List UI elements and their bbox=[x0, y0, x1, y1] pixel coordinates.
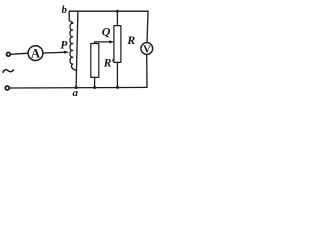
wire: right branch lower segment (voltmeter to bottom corner) bbox=[146, 54, 148, 87]
junction dot at coil bottom (a) bbox=[75, 86, 78, 89]
wire: right branch upper segment (top corner down to voltmeter) bbox=[147, 11, 148, 43]
voltmeter V circle bbox=[141, 43, 153, 55]
terminal (bottom) bbox=[5, 86, 9, 90]
junction dot at R' bottom bbox=[93, 86, 96, 89]
terminal (top) bbox=[6, 52, 10, 56]
slider arrowhead Q bbox=[109, 40, 114, 43]
slider arrowhead P bbox=[64, 51, 69, 54]
wire: bottom bus from terminal to bottom-right corner bbox=[10, 86, 147, 89]
resistor R' top lead and slider arrow Q shaft bbox=[95, 42, 110, 44]
junction dot at R bottom bbox=[116, 86, 119, 89]
wire: top terminal to ammeter bbox=[10, 53, 28, 54]
svg-text:A: A bbox=[31, 46, 40, 60]
rheostat P: slider track vertical line (b to a) bbox=[76, 11, 78, 87]
resistor R top lead bbox=[116, 11, 118, 25]
wire: ammeter to slider arrow P shaft bbox=[43, 51, 65, 54]
junction dot at R top bbox=[116, 10, 119, 13]
resistor R bottom lead bbox=[116, 62, 118, 87]
svg-text:P: P bbox=[60, 39, 68, 51]
svg-text:R: R bbox=[126, 33, 135, 47]
svg-text:V: V bbox=[143, 44, 151, 55]
resistor R' bottom lead bbox=[94, 77, 96, 87]
resistor R' body bbox=[91, 44, 99, 78]
rheostat P: winding curls bbox=[70, 23, 76, 70]
AC source tilde bbox=[3, 70, 13, 73]
wire: top bus from b corner to top-right corner bbox=[69, 10, 148, 12]
ammeter A circle bbox=[28, 46, 43, 61]
resistor R body bbox=[114, 26, 121, 63]
svg-text:b: b bbox=[61, 4, 67, 16]
rheostat P: b lead into winding bbox=[69, 11, 73, 23]
svg-text:R′: R′ bbox=[103, 58, 115, 70]
svg-text:a: a bbox=[72, 87, 78, 99]
svg-text:Q: Q bbox=[102, 24, 111, 38]
